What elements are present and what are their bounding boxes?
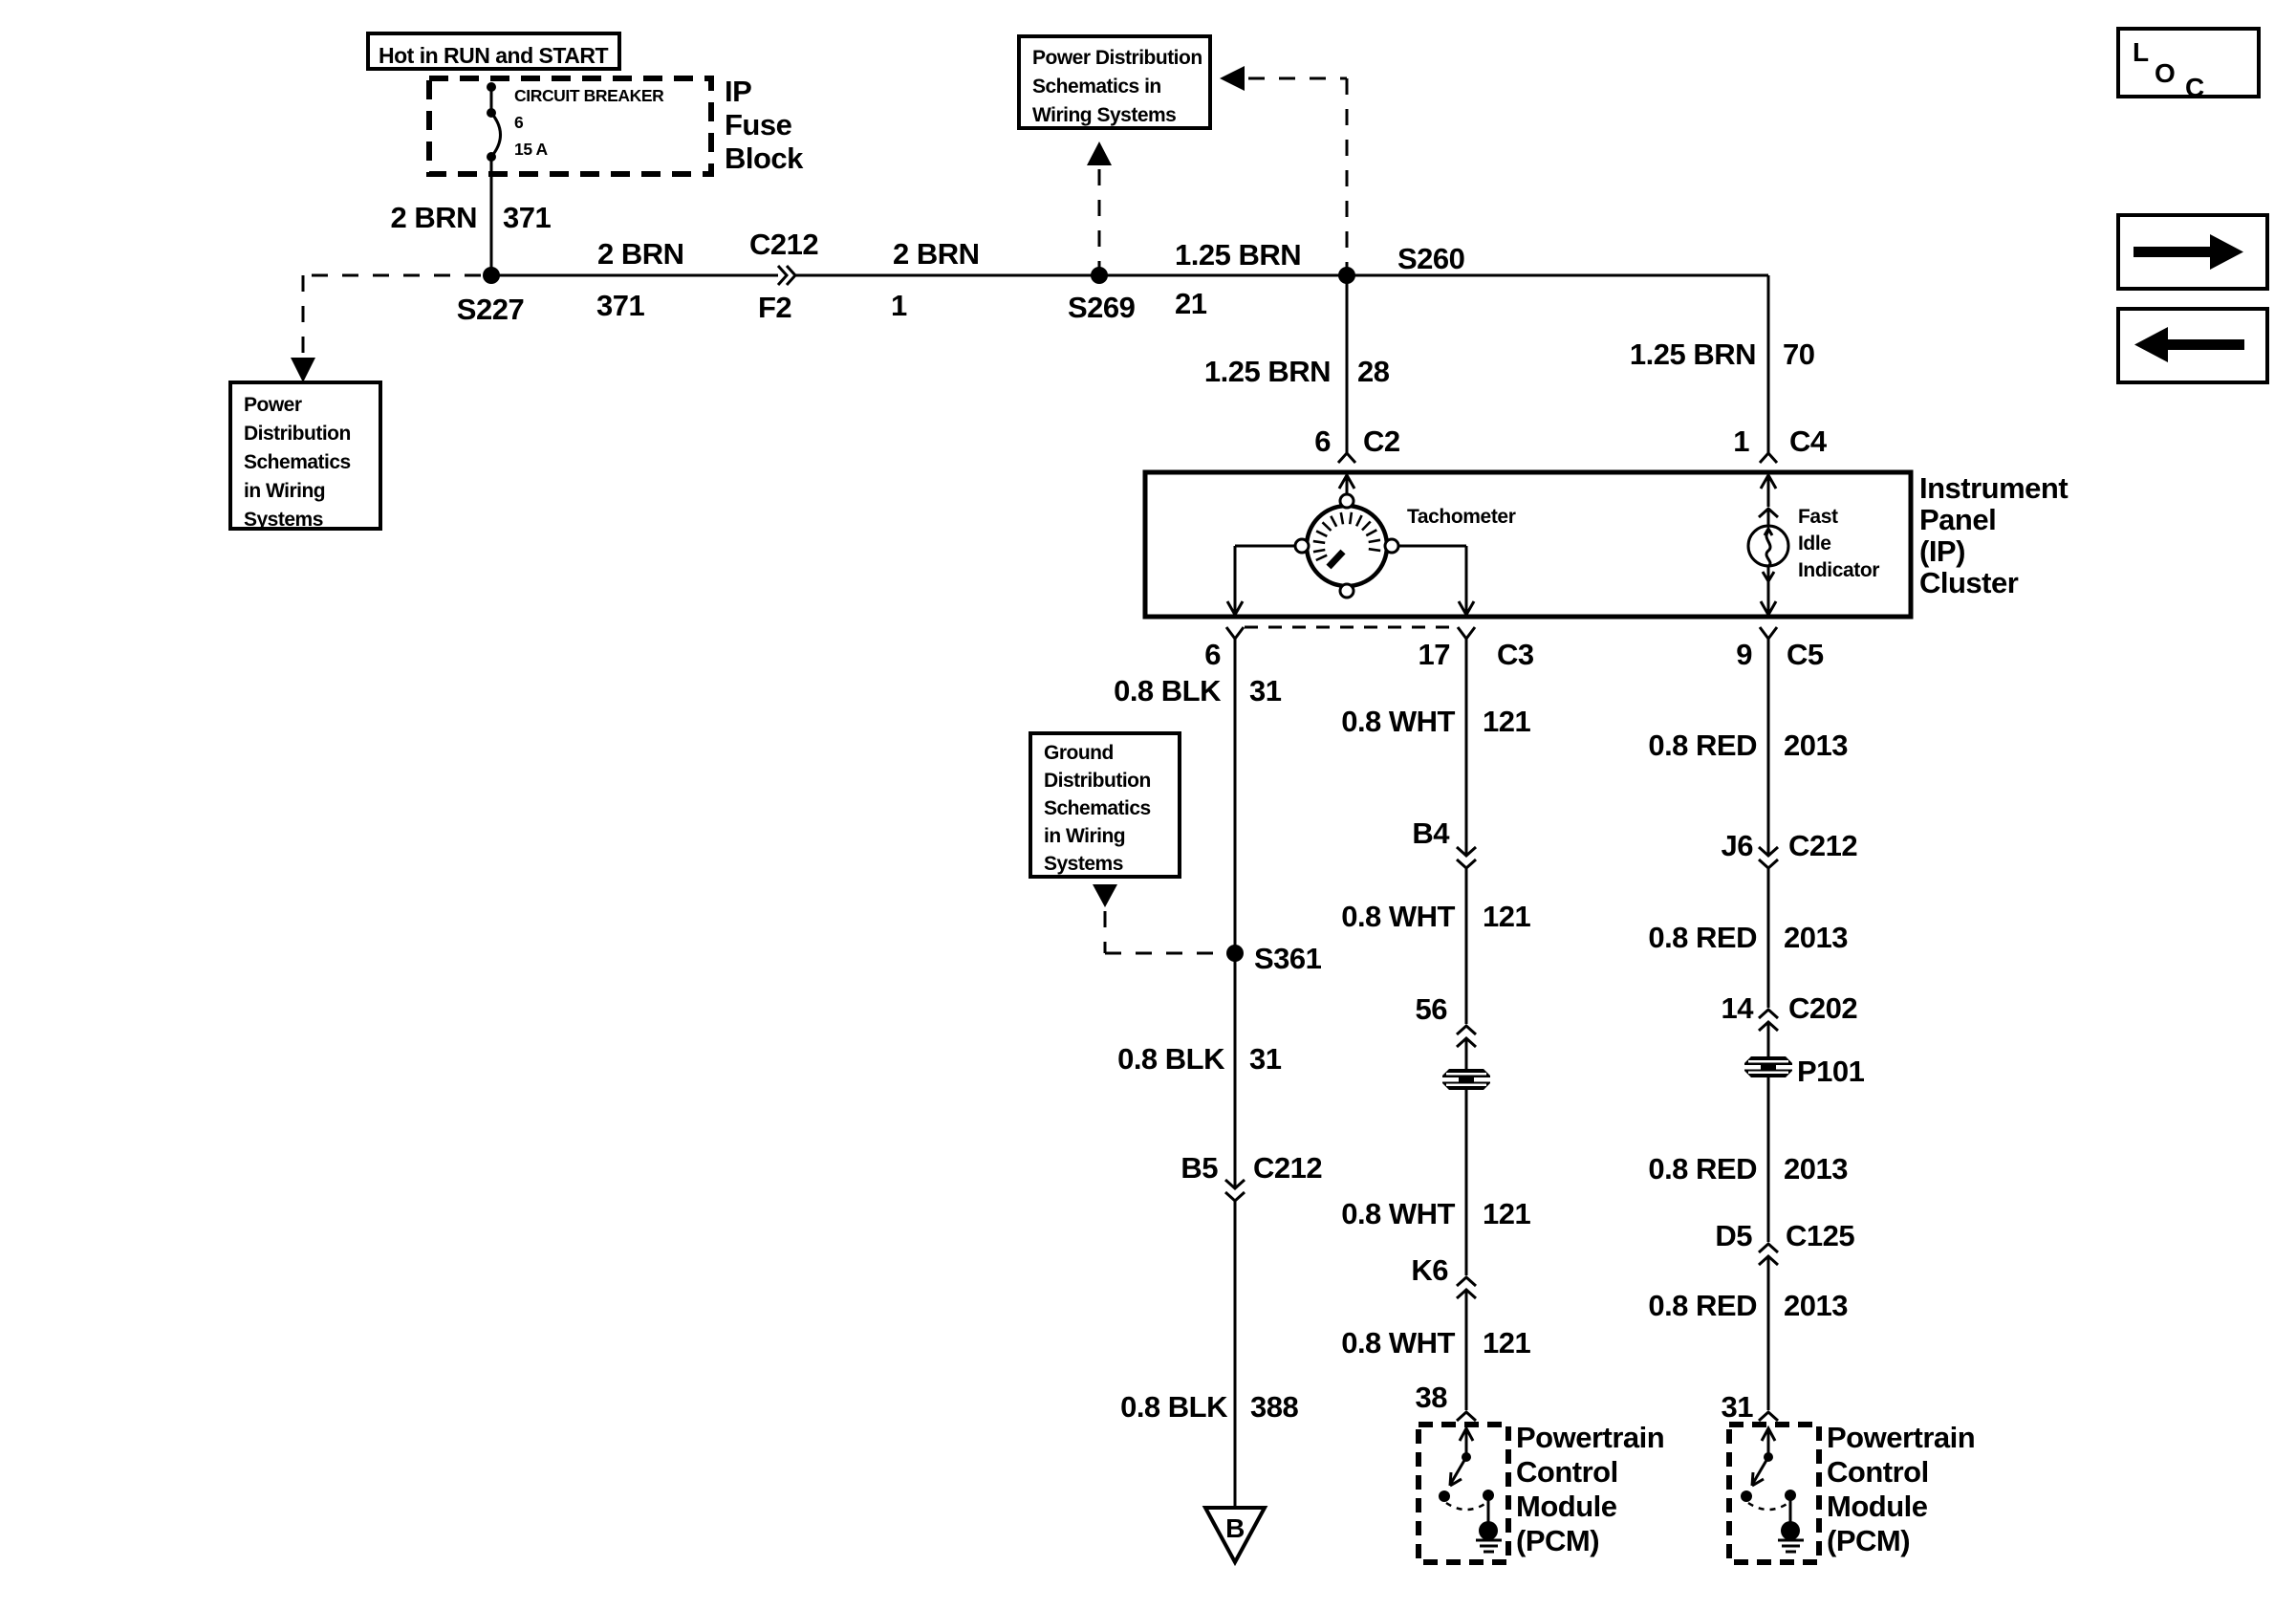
- svg-text:Control: Control: [1827, 1455, 1929, 1489]
- svg-text:121: 121: [1483, 705, 1530, 738]
- svg-text:31: 31: [1722, 1390, 1754, 1424]
- svg-text:0.8 WHT: 0.8 WHT: [1341, 1326, 1455, 1360]
- svg-text:31: 31: [1249, 1042, 1282, 1076]
- svg-text:Hot in RUN and START: Hot in RUN and START: [379, 43, 608, 68]
- svg-text:2013: 2013: [1784, 1152, 1848, 1186]
- svg-text:0.8 RED: 0.8 RED: [1648, 1152, 1757, 1186]
- svg-text:C: C: [2185, 73, 2204, 102]
- svg-text:(IP): (IP): [1919, 534, 1965, 568]
- svg-text:2013: 2013: [1784, 1289, 1848, 1322]
- svg-text:9: 9: [1736, 638, 1752, 671]
- svg-text:F2: F2: [758, 291, 791, 324]
- svg-text:17: 17: [1419, 638, 1450, 671]
- svg-text:P101: P101: [1797, 1055, 1865, 1088]
- svg-text:388: 388: [1250, 1390, 1298, 1424]
- svg-text:B4: B4: [1412, 816, 1450, 850]
- svg-text:C5: C5: [1787, 638, 1824, 671]
- svg-text:in Wiring: in Wiring: [244, 480, 325, 502]
- svg-text:1.25 BRN: 1.25 BRN: [1175, 238, 1301, 272]
- svg-text:Indicator: Indicator: [1798, 559, 1879, 581]
- svg-text:C3: C3: [1497, 638, 1534, 671]
- svg-text:Fast: Fast: [1798, 506, 1838, 528]
- svg-text:31: 31: [1249, 674, 1282, 707]
- svg-text:0.8 RED: 0.8 RED: [1648, 729, 1757, 762]
- svg-text:0.8 WHT: 0.8 WHT: [1341, 900, 1455, 933]
- svg-text:in Wiring: in Wiring: [1044, 825, 1125, 847]
- svg-text:C212: C212: [749, 228, 818, 261]
- svg-text:Distribution: Distribution: [1044, 770, 1151, 792]
- svg-text:(PCM): (PCM): [1516, 1524, 1599, 1557]
- svg-text:Module: Module: [1827, 1490, 1928, 1523]
- svg-text:D5: D5: [1715, 1219, 1752, 1252]
- svg-text:15 A: 15 A: [514, 140, 548, 159]
- svg-text:C212: C212: [1788, 829, 1857, 862]
- svg-text:Cluster: Cluster: [1919, 566, 2019, 599]
- svg-text:0.8 WHT: 0.8 WHT: [1341, 1197, 1455, 1230]
- svg-text:S361: S361: [1254, 942, 1322, 975]
- svg-text:1: 1: [1733, 424, 1749, 458]
- svg-text:O: O: [2155, 58, 2176, 88]
- svg-text:6: 6: [1314, 424, 1331, 458]
- svg-text:Schematics: Schematics: [1044, 797, 1151, 819]
- svg-text:Systems: Systems: [244, 509, 323, 531]
- svg-text:IP: IP: [725, 75, 751, 108]
- svg-text:Control: Control: [1516, 1455, 1618, 1489]
- svg-text:121: 121: [1483, 900, 1530, 933]
- svg-text:Ground: Ground: [1044, 742, 1114, 764]
- svg-text:Powertrain: Powertrain: [1516, 1421, 1664, 1454]
- svg-text:6: 6: [1204, 638, 1221, 671]
- svg-text:38: 38: [1416, 1381, 1448, 1414]
- svg-text:Module: Module: [1516, 1490, 1617, 1523]
- svg-text:B: B: [1225, 1513, 1245, 1543]
- svg-text:1.25 BRN: 1.25 BRN: [1630, 337, 1756, 371]
- svg-text:0.8 BLK: 0.8 BLK: [1114, 674, 1222, 707]
- svg-text:Idle: Idle: [1798, 533, 1831, 555]
- svg-text:2013: 2013: [1784, 921, 1848, 954]
- svg-text:L: L: [2133, 37, 2149, 67]
- svg-text:Powertrain: Powertrain: [1827, 1421, 1975, 1454]
- svg-text:1: 1: [891, 289, 907, 322]
- svg-text:121: 121: [1483, 1197, 1530, 1230]
- svg-text:Panel: Panel: [1919, 503, 1996, 536]
- svg-text:70: 70: [1783, 337, 1814, 371]
- svg-text:Power Distribution: Power Distribution: [1032, 47, 1202, 69]
- svg-text:28: 28: [1357, 355, 1390, 388]
- svg-text:Instrument: Instrument: [1919, 471, 2068, 505]
- svg-text:14: 14: [1722, 991, 1755, 1025]
- svg-text:0.8 RED: 0.8 RED: [1648, 921, 1757, 954]
- svg-text:S260: S260: [1397, 242, 1464, 275]
- svg-text:C4: C4: [1789, 424, 1828, 458]
- svg-text:56: 56: [1416, 992, 1448, 1026]
- svg-text:Wiring Systems: Wiring Systems: [1032, 104, 1176, 126]
- svg-text:Block: Block: [725, 141, 804, 175]
- svg-text:S227: S227: [457, 293, 524, 326]
- svg-text:(PCM): (PCM): [1827, 1524, 1910, 1557]
- svg-text:2 BRN: 2 BRN: [893, 237, 980, 271]
- svg-text:C202: C202: [1788, 991, 1857, 1025]
- svg-text:371: 371: [503, 201, 551, 234]
- svg-text:21: 21: [1175, 287, 1207, 320]
- svg-text:Fuse: Fuse: [725, 108, 792, 141]
- svg-text:C212: C212: [1253, 1151, 1322, 1185]
- svg-text:Schematics: Schematics: [244, 451, 351, 473]
- svg-text:B5: B5: [1180, 1151, 1218, 1185]
- svg-text:371: 371: [596, 289, 644, 322]
- svg-text:2 BRN: 2 BRN: [390, 201, 477, 234]
- svg-text:0.8 BLK: 0.8 BLK: [1117, 1042, 1225, 1076]
- svg-text:0.8 BLK: 0.8 BLK: [1120, 1390, 1228, 1424]
- svg-text:2013: 2013: [1784, 729, 1848, 762]
- svg-text:S269: S269: [1068, 291, 1136, 324]
- svg-text:Tachometer: Tachometer: [1407, 506, 1516, 528]
- svg-text:C2: C2: [1363, 424, 1400, 458]
- svg-text:K6: K6: [1411, 1253, 1448, 1287]
- svg-text:Power: Power: [244, 394, 302, 416]
- svg-text:2 BRN: 2 BRN: [597, 237, 684, 271]
- svg-text:121: 121: [1483, 1326, 1530, 1360]
- svg-text:J6: J6: [1722, 829, 1754, 862]
- svg-text:Schematics in: Schematics in: [1032, 76, 1161, 98]
- svg-text:Systems: Systems: [1044, 853, 1123, 875]
- svg-text:0.8 WHT: 0.8 WHT: [1341, 705, 1455, 738]
- svg-text:C125: C125: [1786, 1219, 1854, 1252]
- svg-text:6: 6: [514, 113, 524, 132]
- svg-text:Distribution: Distribution: [244, 423, 351, 445]
- svg-text:CIRCUIT BREAKER: CIRCUIT BREAKER: [514, 86, 664, 105]
- svg-text:1.25 BRN: 1.25 BRN: [1204, 355, 1331, 388]
- svg-text:0.8 RED: 0.8 RED: [1648, 1289, 1757, 1322]
